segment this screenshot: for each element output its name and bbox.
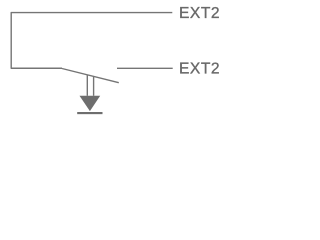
- svg-text:EXT2: EXT2: [179, 5, 220, 22]
- actuator plunger left line: [86, 75, 88, 96]
- switch blade SW (open contact lever): [62, 69, 119, 83]
- actuator plunger right line: [93, 76, 95, 96]
- wire: bottom EXT2 wire: [117, 67, 173, 69]
- wire: top EXT2 wire with left vertical drop and bottom-left segment: [11, 13, 172, 69]
- svg-text:EXT2: EXT2: [179, 61, 220, 78]
- actuator arrowhead (filled triangle): [80, 96, 101, 111]
- actuator stop bar: [77, 112, 102, 114]
